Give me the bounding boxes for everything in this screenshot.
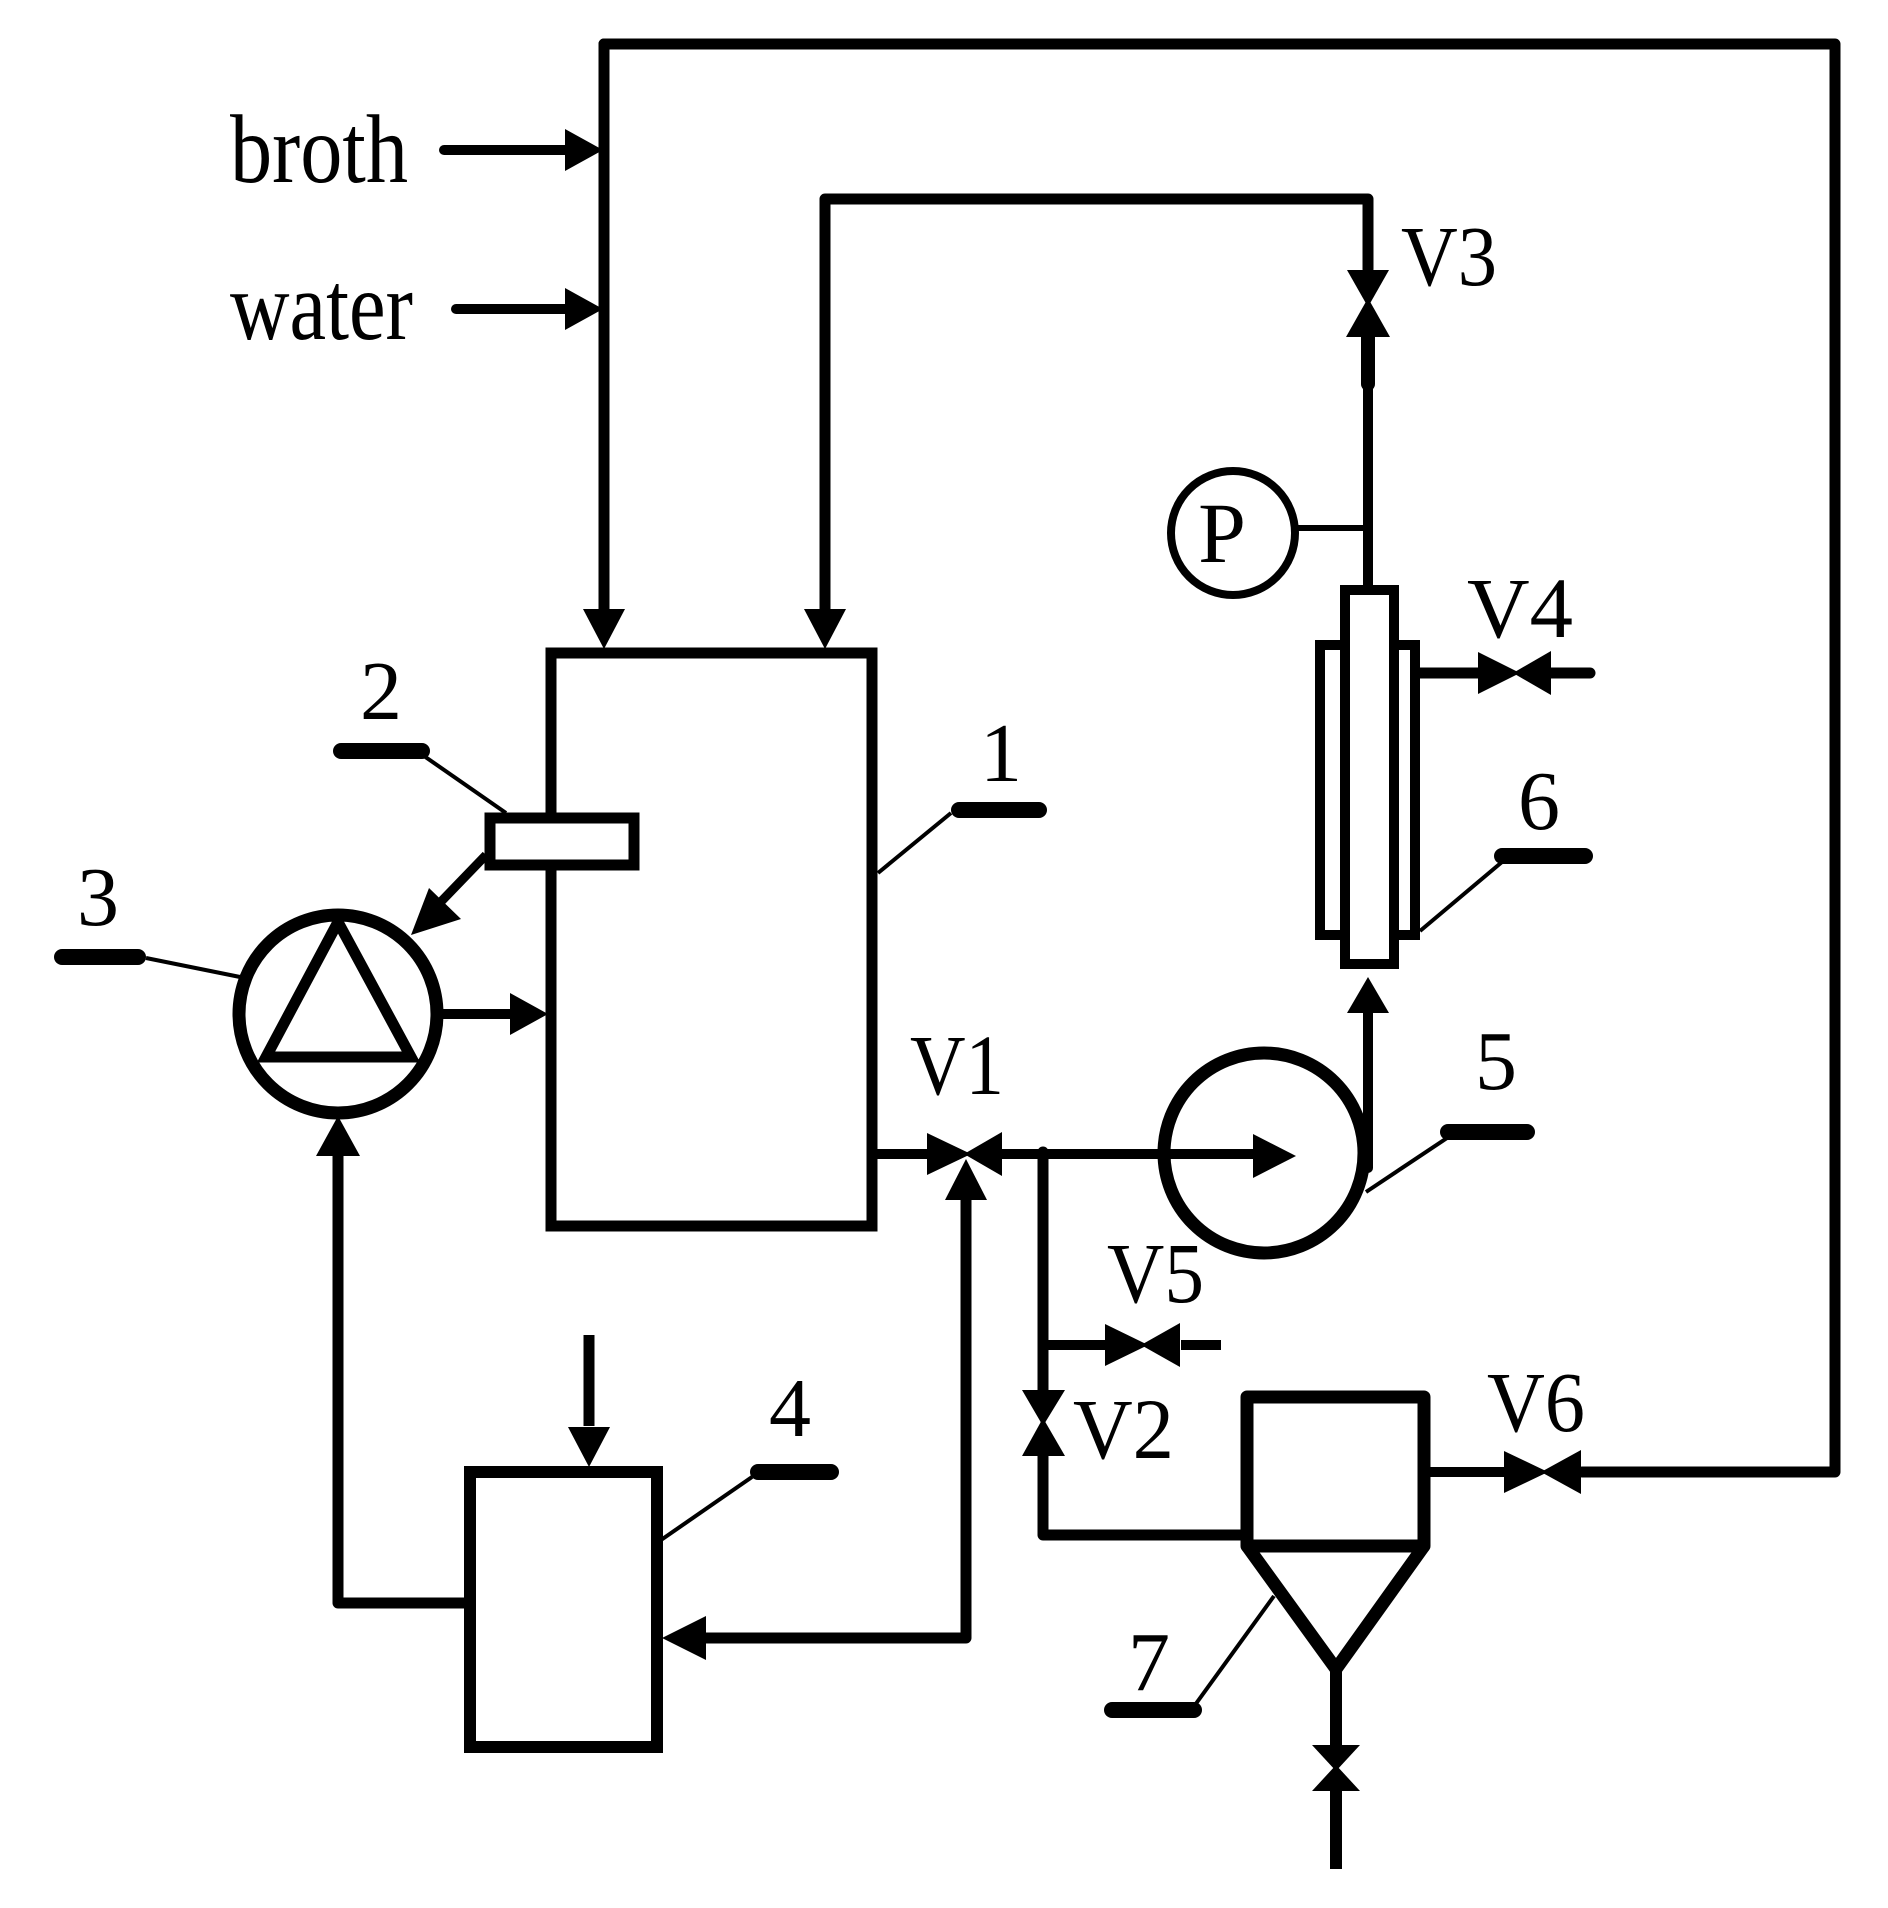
bottom drain valve (1312, 1745, 1360, 1791)
svg-text:6: 6 (1518, 755, 1560, 848)
wire V5 stub left (1043, 1340, 1105, 1350)
wire permeate return top (825, 199, 1368, 610)
arrowhead broth line into tank1 (583, 609, 625, 649)
stirrer port 2 (490, 818, 634, 865)
wire V1 to pump5 (1002, 1149, 1253, 1159)
wire broth inlet drop (599, 44, 610, 610)
wire separator to V6 (1424, 1467, 1504, 1477)
wire P gauge connector (1295, 525, 1368, 531)
tank 4 (470, 1472, 657, 1747)
label 1 (878, 707, 1039, 873)
arrowhead up into pump3 (316, 1116, 360, 1156)
svg-text:V4: V4 (1467, 560, 1573, 656)
arrowhead into tank4 right side (662, 1616, 706, 1660)
label 2 (341, 645, 506, 813)
label 5 (1366, 1015, 1527, 1192)
wire water arrow line (456, 304, 566, 314)
svg-text:V2: V2 (1073, 1381, 1174, 1477)
svg-text:V3: V3 (1401, 208, 1497, 304)
separator 7 (1247, 1397, 1424, 1669)
svg-text:V1: V1 (910, 1017, 1004, 1113)
wire stirrer drive arrow shaft (432, 855, 486, 911)
arrowhead pump5 center (1253, 1134, 1296, 1178)
pump 5 (1164, 1053, 1364, 1253)
wire V2 down to separator (1043, 1455, 1242, 1535)
arrowhead into membrane bottom (1347, 977, 1389, 1013)
wire tank1 outlet to V1 (874, 1149, 927, 1159)
wire V5 stub right (1181, 1340, 1221, 1350)
wire separator bottom outlet (1330, 1669, 1342, 1746)
svg-text:V5: V5 (1107, 1225, 1204, 1321)
wire top border retentate loop (604, 44, 1835, 1472)
svg-text:broth: broth (230, 96, 408, 204)
svg-text:water: water (230, 253, 413, 361)
wire broth arrow line (444, 145, 566, 155)
membrane module 6 (1320, 590, 1415, 964)
valve V4 (1478, 651, 1551, 695)
svg-text:V6: V6 (1487, 1354, 1585, 1450)
wire tank4 top inlet (584, 1335, 595, 1426)
pressure gauge P (1171, 471, 1295, 595)
arrowhead into tank4 top (568, 1427, 610, 1467)
svg-text:P: P (1198, 485, 1246, 581)
label 7 (1112, 1596, 1274, 1710)
label 3 (62, 851, 250, 979)
label 6 (1420, 755, 1585, 931)
arrowhead stirrer drive pointer (411, 888, 461, 935)
arrowhead water into drop pipe (565, 288, 603, 330)
svg-text:2: 2 (360, 645, 402, 738)
svg-text:4: 4 (769, 1362, 811, 1455)
svg-text:1: 1 (980, 707, 1022, 800)
valve V3 (1346, 270, 1390, 337)
arrowhead permeate line into tank1 (804, 609, 846, 649)
arrowhead up into V1 (945, 1159, 987, 1200)
wire V3 to membrane top (1361, 337, 1375, 384)
svg-text:7: 7 (1128, 1616, 1170, 1709)
label 4 (661, 1362, 831, 1540)
wire pump3 outlet (437, 1009, 510, 1019)
wire pump3 inlet riser from tank4 (338, 1155, 464, 1603)
pump 3 (239, 915, 437, 1113)
arrowhead pump3 outlet into tank1 (510, 993, 548, 1035)
wire V1 bottom riser to tank4 (706, 1200, 966, 1638)
tank 1 (551, 653, 872, 1226)
svg-text:3: 3 (77, 851, 119, 944)
svg-text:5: 5 (1475, 1015, 1517, 1108)
valve V5 (1105, 1323, 1180, 1367)
valve V2 (1022, 1390, 1065, 1456)
arrowhead broth into drop pipe (565, 129, 603, 171)
wire V4 right stub (1551, 668, 1590, 679)
wire branch down from pump line (1038, 1152, 1049, 1390)
wire membrane to V4 (1420, 668, 1478, 679)
wire bottom valve outlet (1330, 1790, 1342, 1869)
valve V1 (927, 1132, 1002, 1176)
wire pump5 to membrane bottom (1363, 1005, 1373, 1168)
valve V6 (1504, 1450, 1581, 1494)
